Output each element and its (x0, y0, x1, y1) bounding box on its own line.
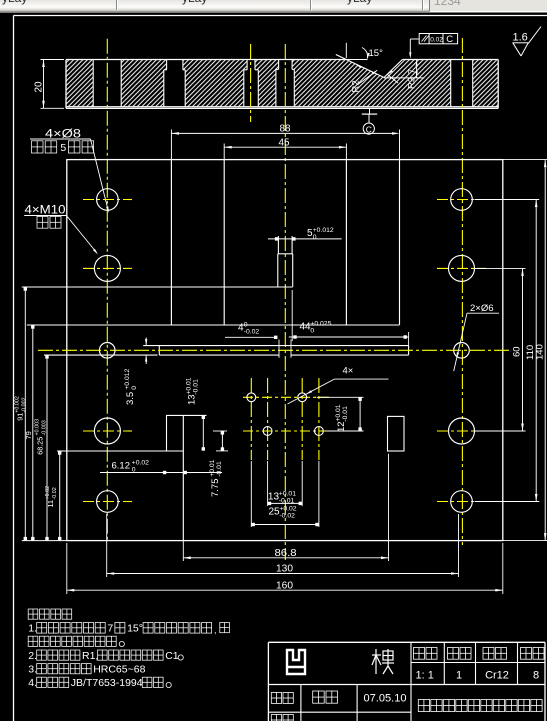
svg-text:-0.01: -0.01 (216, 461, 223, 477)
school name XuZhou college (418, 700, 542, 712)
svg-text:11: 11 (46, 500, 55, 507)
dim 110 (right, rotated) (475, 199, 540, 201)
dim 88 (top) (170, 130, 172, 160)
svg-text:7: 7 (407, 69, 418, 74)
title big text Die (concave) (287, 650, 305, 674)
dim 86.8 (182, 541, 184, 561)
svg-text:-0.02: -0.02 (279, 513, 295, 520)
svg-text:C1: C1 (165, 650, 179, 662)
svg-text:6.12: 6.12 (112, 461, 131, 472)
svg-text:4×: 4× (343, 366, 354, 377)
svg-text:‚: ‚ (214, 625, 216, 635)
svg-text:+0.01: +0.01 (185, 377, 192, 394)
svg-text:1: 1: 1: 1 (416, 670, 434, 682)
svg-text:+0.01: +0.01 (279, 490, 296, 497)
right cavity slot (345, 160, 347, 325)
sheet frame top border (14, 15, 547, 17)
dim 12 +0.01/-0.01 (right of pilot holes) (317, 396, 364, 398)
dim 130 (106, 514, 108, 577)
datum C symbol (369, 108, 371, 114)
svg-text:R1,: R1, (82, 650, 98, 662)
svg-text:0: 0 (313, 234, 317, 241)
svg-text:0: 0 (131, 386, 138, 390)
center narrow slot (5mm) (277, 236, 279, 254)
svg-text:-0.02: -0.02 (52, 487, 58, 499)
horizontal bending slot (3.5mm) (143, 345, 408, 347)
svg-text:88: 88 (280, 124, 291, 135)
svg-text:13: 13 (187, 394, 198, 405)
svg-text:07.05.10: 07.05.10 (364, 693, 407, 705)
svg-text:140: 140 (535, 344, 546, 360)
svg-text:1: 1 (456, 670, 462, 682)
svg-text:20: 20 (34, 81, 45, 93)
bending groove profile (336, 55, 384, 78)
cell ZhiTu (drawn by) (271, 693, 293, 704)
svg-text:7: 7 (107, 623, 113, 635)
hole 4xD8 top-right (451, 189, 473, 211)
svg-text:8: 8 (533, 670, 539, 682)
cell BiLi (scale) (414, 648, 438, 660)
svg-text:130: 130 (276, 564, 293, 575)
stepped center slot in section (278, 60, 280, 70)
svg-text:+0.002: +0.002 (14, 396, 20, 413)
cell ShenHe (checked) (271, 715, 293, 721)
dim 91 +0.002/-0.002 (left, rotated) (24, 287, 26, 541)
dim 3.5 +0.012/0 (slot width, rotated) (145, 338, 147, 346)
svg-text:+0.01: +0.01 (335, 404, 342, 421)
svg-text:0: 0 (132, 467, 136, 474)
hole 2xD6 right (454, 343, 470, 359)
hole 2xD6 left (99, 343, 115, 359)
notes line 2 (28, 636, 116, 646)
dim 25 +0.02/-0.02 (pilot holes) (250, 461, 252, 527)
svg-text:86.8: 86.8 (275, 548, 297, 559)
svg-text:R2: R2 (351, 80, 362, 92)
parallelism feature control frame (419, 34, 457, 44)
plan yellow centerlines horizontal (83, 199, 132, 201)
svg-text:2×Ø6: 2×Ø6 (470, 303, 494, 314)
left cavity slot (170, 160, 172, 325)
cell TuHao (dwg no) (521, 648, 545, 660)
slot S1 in section (92, 60, 94, 107)
svg-text:60: 60 (512, 346, 523, 357)
dimension 20 (section height) (41, 59, 65, 61)
plan yellow centerlines vertical (250, 378, 252, 460)
dim 79 (left, rotated) (32, 325, 34, 541)
bottom edge extension to left dims (22, 540, 67, 542)
svg-text:91: 91 (16, 413, 25, 421)
label R2 (359, 70, 378, 84)
svg-text:+0.025: +0.025 (310, 320, 331, 327)
dim 68.25 +0.003/-0.003 (left, rotated) (46, 355, 48, 541)
svg-text:+0.012: +0.012 (124, 368, 131, 389)
svg-text:Cr12: Cr12 (485, 670, 509, 682)
svg-text:JB/T7653-1994: JB/T7653-1994 (71, 677, 143, 689)
section view hatched areas (66, 60, 93, 107)
cell CaiLiao (material) (483, 648, 507, 660)
svg-text:3.5: 3.5 (125, 392, 136, 405)
svg-text:R3: R3 (407, 77, 418, 89)
svg-text:+0.02: +0.02 (132, 459, 149, 466)
svg-text:-0.02: -0.02 (244, 329, 260, 336)
notes title line (28, 609, 71, 619)
stepped slot S2 in section (166, 60, 168, 70)
dim 13 +0.01/-0.01 (pilot holes) (267, 461, 269, 506)
svg-text:C: C (366, 124, 372, 134)
dim 140 (right, rotated) (503, 159, 547, 161)
hole 4xM10 lower-left (94, 418, 120, 444)
slot S5 in section (450, 60, 452, 107)
plan view outline (67, 160, 503, 541)
dimension 7 (groove depth) (384, 77, 424, 79)
dim 60 (right, rotated) (475, 267, 526, 269)
svg-text:-0.003: -0.003 (42, 420, 48, 435)
hole 4xD8 bottom-right (451, 491, 473, 513)
svg-text:-0.01: -0.01 (279, 498, 295, 505)
svg-text:0: 0 (244, 321, 248, 328)
svg-text:12: 12 (336, 421, 347, 432)
svg-text:1.: 1. (28, 623, 37, 635)
dim 11 +0.02/-0.02 (left, rotated) (59, 451, 61, 541)
svg-text:68.25: 68.25 (36, 437, 45, 455)
dim 44 +0.025/0 (291, 290, 293, 341)
svg-text:3.: 3. (28, 663, 37, 675)
svg-text:44: 44 (300, 322, 312, 333)
svg-text:C: C (446, 34, 453, 45)
svg-text:HRC65~68: HRC65~68 (93, 663, 145, 675)
svg-text:0.02: 0.02 (430, 36, 443, 43)
lower-right step rectangle (388, 416, 405, 451)
svg-text:4.: 4. (28, 677, 37, 689)
section yellow centerlines (106, 39, 108, 540)
svg-text:-0.01: -0.01 (342, 406, 349, 422)
dim 7.75 +0.01/-0.01 (rotated) (213, 430, 227, 432)
svg-text:0: 0 (310, 328, 314, 335)
dim 4 0/-0.02 (278, 340, 280, 357)
dim 6.12 +0.02/0 (100, 472, 222, 474)
svg-text:1.6: 1.6 (513, 32, 528, 44)
svg-text:+0.02: +0.02 (45, 486, 51, 500)
name GengYao (313, 691, 338, 703)
svg-text:+0.01: +0.01 (209, 459, 216, 476)
hole 4xM10 lower-right (449, 418, 475, 444)
cell ShuLiang (qty) (448, 648, 472, 660)
svg-text:25: 25 (269, 507, 281, 518)
title block outline (268, 641, 545, 643)
section view outline (66, 59, 346, 61)
dim 160 (66, 543, 68, 594)
hole 4xD8 top-left (97, 189, 119, 211)
stepped slot S3 in section (246, 60, 248, 70)
svg-text:2.: 2. (28, 650, 37, 662)
hole 4xD8 bottom-left (97, 491, 119, 513)
svg-text:15°: 15° (127, 623, 143, 635)
svg-text:-0.01: -0.01 (193, 379, 200, 395)
toolbar strip (clipped app toolbar) (0, 0, 547, 13)
center 4mm notch stubs (278, 355, 280, 358)
svg-text:-0.002: -0.002 (22, 397, 28, 412)
svg-text:15°: 15° (369, 48, 384, 59)
hole 4xM10 upper-left (94, 255, 120, 281)
sheet frame left border (13, 16, 15, 721)
svg-text:4×M10: 4×M10 (25, 204, 66, 216)
svg-text:160: 160 (276, 580, 293, 591)
svg-text:79: 79 (24, 431, 33, 439)
svg-text:+0.003: +0.003 (34, 419, 40, 436)
lower-left step (166, 414, 207, 416)
dim 45 (top) (223, 144, 225, 160)
svg-text:+0.012: +0.012 (313, 227, 334, 234)
cavity bottom edge + extension line y=325 (27, 324, 400, 326)
svg-text:+0.02: +0.02 (279, 505, 296, 512)
dimension 15 deg (345, 43, 347, 58)
svg-text:45: 45 (279, 137, 290, 148)
dim 5 +0.012/0 (268, 238, 342, 240)
dim 13 +0.01/-0.01 (left step, rotated) (166, 414, 207, 416)
four small pilot holes (247, 393, 256, 402)
label R3 (388, 75, 399, 84)
hole 4xM10 upper-right (449, 255, 475, 281)
svg-text:5: 5 (60, 142, 66, 154)
slot bottom edge + long extension y=287 (22, 286, 293, 288)
svg-text:13: 13 (268, 492, 280, 503)
svg-text:7.75: 7.75 (210, 479, 221, 498)
